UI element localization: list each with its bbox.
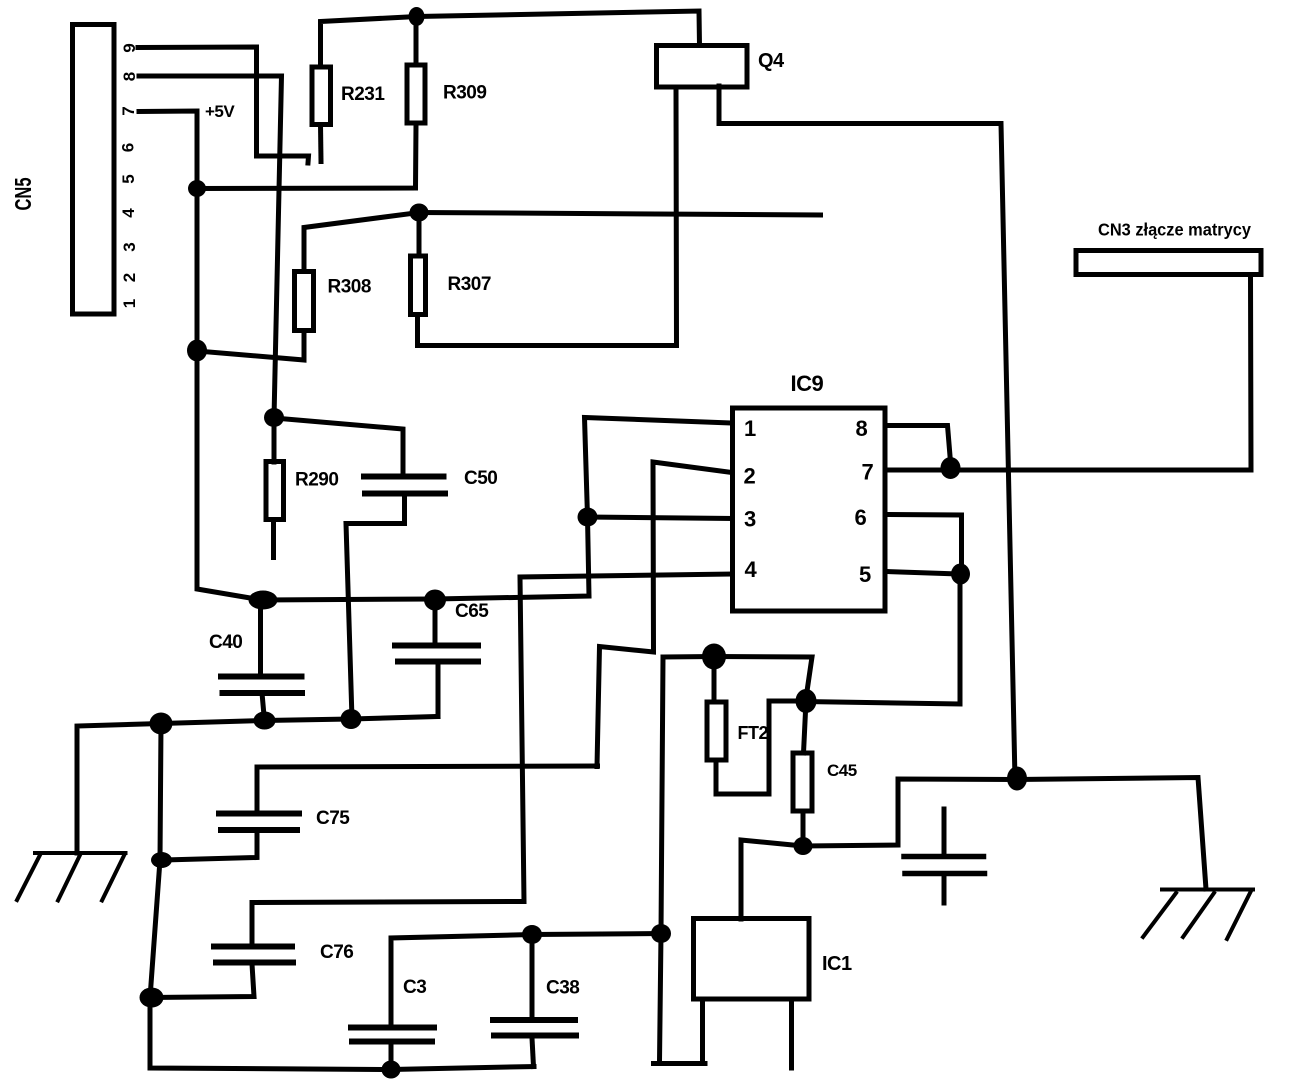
- wire left rail down to bottom: [150, 724, 534, 1070]
- wire R290 node to C50 top: [274, 418, 403, 476]
- capacitor C40: [258, 600, 263, 676]
- node dot C40 top: [249, 591, 278, 610]
- wire R307 top lead: [417, 213, 422, 257]
- ground left: [17, 853, 126, 901]
- svg-text:8: 8: [856, 416, 868, 441]
- node dot x661: [651, 924, 671, 943]
- svg-text:7: 7: [119, 106, 138, 115]
- wire x661 vertical FT2-rail to IC1: [654, 657, 706, 1064]
- svg-text:R307: R307: [448, 274, 491, 295]
- svg-text:5: 5: [119, 174, 138, 183]
- wire IC9 pin8: [887, 426, 951, 469]
- svg-text:R308: R308: [328, 277, 371, 298]
- svg-text:C65: C65: [455, 601, 489, 622]
- svg-text:2: 2: [744, 464, 756, 489]
- svg-text:C40: C40: [209, 632, 242, 653]
- capacitor C65: [433, 600, 438, 645]
- svg-text:C76: C76: [320, 942, 353, 963]
- svg-text:FT2: FT2: [738, 723, 769, 743]
- wire CN5 pin9 to R231 bottom: [138, 47, 309, 163]
- wire Q4 left pin to R307 bottom: [418, 87, 677, 346]
- svg-text:C3: C3: [403, 977, 426, 998]
- capacitor C45 (boxed): [793, 753, 812, 811]
- wire R309 bottom to +5V node: [197, 125, 416, 189]
- resistor R231: [312, 67, 331, 125]
- wire C45 bottom node right up to Q4 rail node: [803, 779, 1015, 846]
- resistor R290: [266, 462, 284, 520]
- resistor R308: [295, 272, 314, 331]
- node dot pin5: [951, 564, 970, 585]
- fuse FT2: [707, 702, 726, 760]
- node dot C3 bottom: [382, 1061, 401, 1079]
- wire node up to IC9 pin1: [585, 418, 733, 518]
- wire R309 top lead: [414, 17, 419, 66]
- svg-text:C45: C45: [827, 761, 857, 780]
- wire row2 ground rail: [77, 717, 438, 854]
- wire R231 top / R309 top to Q4: [321, 11, 700, 65]
- integrated circuit IC9: [733, 408, 886, 611]
- node dot C65 top: [424, 590, 446, 611]
- svg-text:R309: R309: [443, 83, 486, 104]
- svg-text:C38: C38: [546, 978, 579, 999]
- svg-text:1: 1: [120, 299, 139, 308]
- svg-text:CN5: CN5: [10, 177, 36, 210]
- ground right: [1143, 890, 1253, 940]
- svg-text:8: 8: [120, 72, 139, 81]
- node dot C38 top: [522, 925, 542, 944]
- wire node right free end: [419, 213, 821, 216]
- wire IC9 pin7 to CN3: [887, 276, 1251, 470]
- svg-text:7: 7: [862, 460, 874, 485]
- wire +5V node to R308 bottom: [197, 331, 304, 360]
- wire CN5 pin7 +5V rail down to C40 node: [139, 111, 262, 600]
- wire IC1 left pin: [700, 999, 705, 1063]
- svg-text:IC1: IC1: [822, 953, 852, 975]
- svg-text:1: 1: [744, 416, 756, 441]
- wire CN5 pin8 long vertical to R290 node: [139, 76, 282, 418]
- node dot FT2 top: [702, 644, 726, 670]
- wire R290 top lead: [272, 418, 277, 462]
- node dot +5V pin5 row: [188, 180, 206, 197]
- svg-text:3: 3: [120, 242, 139, 251]
- svg-text:C50: C50: [464, 468, 497, 489]
- node dot C45 bottom: [794, 837, 813, 855]
- svg-text:IC9: IC9: [791, 371, 824, 396]
- wire C50 bottom down to row2: [346, 497, 405, 720]
- node dot pin1/pin3: [578, 508, 598, 527]
- wire pin5 node down to C45 top node: [806, 574, 960, 704]
- connector CN5: [73, 25, 115, 315]
- capacitor C50: [364, 477, 445, 494]
- wire IC9 pin2 to C75 rail: [597, 462, 732, 767]
- svg-text:6: 6: [855, 505, 867, 530]
- resistor R307: [411, 256, 426, 315]
- svg-text:4: 4: [745, 557, 758, 582]
- transistor Q4: [657, 46, 748, 88]
- svg-text:2: 2: [120, 273, 139, 282]
- capacitor C3: [391, 934, 661, 1028]
- wire C45 top lead: [804, 701, 807, 753]
- node dot top rail: [409, 7, 425, 26]
- wire node to IC9 pin3: [588, 517, 733, 519]
- connector CN3: [1076, 251, 1261, 275]
- wire IC9 pin5: [887, 572, 960, 575]
- node dot R290 top: [264, 408, 284, 427]
- wire IC9 pin4 to C76 top: [252, 574, 732, 946]
- capacitor C75: [257, 766, 598, 813]
- wire FT2 node rail: [663, 657, 812, 699]
- wire R308 top to node: [304, 213, 419, 270]
- wire C45 bottom lead: [801, 811, 806, 846]
- wire IC9 pin6: [887, 515, 962, 575]
- svg-text:4: 4: [119, 208, 138, 218]
- svg-text:CN3 złącze matrycy: CN3 złącze matrycy: [1098, 220, 1251, 240]
- resistor R309: [407, 65, 425, 123]
- svg-text:+5V: +5V: [205, 102, 235, 121]
- wire IC1 right pin: [789, 999, 794, 1068]
- wire R290 bottom stub: [271, 522, 276, 558]
- node dot Q4 rail: [1007, 767, 1027, 791]
- svg-text:C75: C75: [316, 808, 350, 829]
- svg-text:6: 6: [119, 143, 138, 152]
- svg-text:3: 3: [744, 507, 756, 532]
- integrated circuit IC1: [694, 919, 810, 1000]
- node dot R307 top: [410, 204, 429, 222]
- node dot row2 a: [341, 709, 362, 729]
- wire FT2 top lead: [712, 656, 717, 702]
- node dot pin7: [941, 457, 961, 479]
- capacitor unlabeled floating: [942, 809, 947, 854]
- node dot C76 bottom: [140, 988, 164, 1008]
- node dot row2 c: [150, 713, 173, 735]
- svg-text:R290: R290: [295, 470, 338, 491]
- wire FT2 bottom loop to C45 top: [716, 701, 806, 794]
- node dot +5V lower: [187, 340, 207, 362]
- wire node to right ground: [1015, 778, 1206, 890]
- svg-text:5: 5: [859, 562, 871, 587]
- node dot row2 b: [254, 712, 276, 730]
- wire R231 bottom lead: [318, 125, 324, 162]
- wire Q4 right pin long vertical: [719, 86, 1015, 780]
- capacitor C38: [530, 935, 535, 1021]
- wire C45 bottom to IC1 top: [741, 840, 803, 919]
- wire row1 C40/C65 rail: [262, 517, 589, 600]
- node dot C75 bottom: [151, 852, 172, 868]
- svg-text:Q4: Q4: [758, 50, 785, 72]
- svg-text:R231: R231: [341, 84, 385, 105]
- capacitor C76: [214, 947, 293, 963]
- node dot C45 top: [796, 689, 817, 713]
